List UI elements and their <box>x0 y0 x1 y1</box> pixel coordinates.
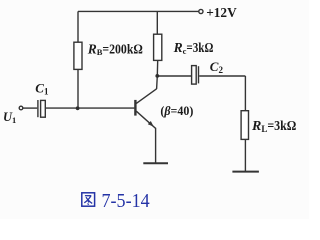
svg-text:C1: C1 <box>35 80 49 96</box>
svg-text:Rc=3kΩ: Rc=3kΩ <box>173 40 214 56</box>
svg-text:RB=200kΩ: RB=200kΩ <box>87 41 143 57</box>
svg-text:C2: C2 <box>210 59 224 75</box>
svg-text:U1: U1 <box>3 110 16 125</box>
svg-text:(β=40): (β=40) <box>160 104 193 118</box>
svg-text:+12V: +12V <box>206 6 237 21</box>
svg-text:7-5-14: 7-5-14 <box>102 190 150 212</box>
svg-text:RL=3kΩ: RL=3kΩ <box>251 119 296 134</box>
